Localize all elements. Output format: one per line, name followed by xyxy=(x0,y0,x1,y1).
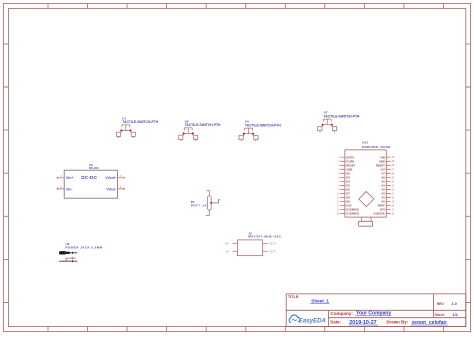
svg-text:GND: GND xyxy=(379,159,385,163)
svg-text:POWER JACK 5.5MM: POWER JACK 5.5MM xyxy=(66,245,103,249)
svg-text:D5: D5 xyxy=(346,183,350,187)
svg-text:DC-DC: DC-DC xyxy=(89,166,99,170)
svg-text:D1/RX: D1/RX xyxy=(346,159,354,163)
frame row ticks left/right xyxy=(4,44,471,303)
svg-text:VOut-: VOut- xyxy=(106,187,117,191)
tactile switch U4 xyxy=(239,120,281,142)
tactile switch U1 xyxy=(116,116,158,138)
svg-text:Date:: Date: xyxy=(330,320,340,325)
svg-text:Sheet:: Sheet: xyxy=(435,313,445,317)
svg-text:3V3: 3V3 xyxy=(380,208,385,212)
svg-text:TACTILE-SWITCH-PTH: TACTILE-SWITCH-PTH xyxy=(185,123,221,127)
svg-text:A7: A7 xyxy=(381,171,385,175)
buck module J2 MP2307-MINI-360 xyxy=(225,231,281,255)
svg-text:Sheet_1: Sheet_1 xyxy=(311,298,329,303)
svg-text:D6: D6 xyxy=(346,187,350,191)
svg-text:VIn+: VIn+ xyxy=(66,176,74,180)
svg-text:1/1: 1/1 xyxy=(453,312,459,317)
svg-text:D10: D10 xyxy=(346,204,351,208)
svg-text:REV:: REV: xyxy=(437,302,444,306)
svg-text:Company:: Company: xyxy=(330,311,353,316)
svg-text:AREF: AREF xyxy=(377,204,385,208)
svg-text:A4: A4 xyxy=(381,183,385,187)
nano centre diamond xyxy=(359,192,374,207)
power jack U3 xyxy=(59,242,103,262)
svg-text:+5V: +5V xyxy=(380,167,385,171)
tactile switch U7 xyxy=(318,111,360,133)
svg-text:EasyEDA: EasyEDA xyxy=(299,317,326,324)
svg-text:TACTILE-SWITCH-PTH: TACTILE-SWITCH-PTH xyxy=(122,120,158,124)
svg-text:OUT-: OUT- xyxy=(269,249,276,253)
svg-text:UA1: UA1 xyxy=(362,141,368,145)
svg-text:IN+: IN+ xyxy=(225,241,230,245)
svg-text:TITLE:: TITLE: xyxy=(288,295,299,299)
svg-text:D13/SCK: D13/SCK xyxy=(373,212,384,216)
svg-text:D4: D4 xyxy=(346,179,350,183)
svg-text:VIN: VIN xyxy=(380,155,385,159)
svg-text:TACTILE-SWITCH-PTH: TACTILE-SWITCH-PTH xyxy=(324,115,360,119)
nano pins xyxy=(340,157,391,213)
svg-text:RESET: RESET xyxy=(346,163,355,167)
svg-text:TACTILE-SWITCH-PTH: TACTILE-SWITCH-PTH xyxy=(245,124,281,128)
svg-text:D0/TX: D0/TX xyxy=(346,155,354,159)
nano usb tab xyxy=(359,221,373,226)
tactile switch U6 xyxy=(179,119,221,141)
svg-text:OUT+: OUT+ xyxy=(269,241,277,245)
svg-text:D7: D7 xyxy=(346,191,350,195)
svg-text:A5: A5 xyxy=(381,179,385,183)
svg-text:VIn-: VIn- xyxy=(66,187,74,191)
svg-text:VOut+: VOut+ xyxy=(105,176,116,180)
svg-text:D9: D9 xyxy=(346,200,350,204)
svg-text:D11/MOSI: D11/MOSI xyxy=(346,208,359,212)
svg-text:1.0: 1.0 xyxy=(451,301,456,306)
svg-text:POT?_1A: POT?_1A xyxy=(191,204,207,208)
svg-text:A6: A6 xyxy=(381,175,385,179)
svg-text:D12/MISO: D12/MISO xyxy=(346,212,359,216)
svg-text:A0: A0 xyxy=(381,200,385,204)
svg-text:A1: A1 xyxy=(381,196,385,200)
svg-text:D8: D8 xyxy=(346,196,350,200)
svg-text:ARDUINO_NANO: ARDUINO_NANO xyxy=(362,145,391,149)
svg-text:D2: D2 xyxy=(346,171,350,175)
DC-DC module U5 xyxy=(57,163,126,198)
svg-text:A3: A3 xyxy=(381,187,385,191)
potentiometer P1 xyxy=(191,190,220,215)
svg-text:D3: D3 xyxy=(346,175,350,179)
EasyEDA logo xyxy=(289,315,300,323)
title block xyxy=(286,294,466,327)
svg-text:Drawn By:: Drawn By: xyxy=(386,320,408,325)
svg-text:GND: GND xyxy=(346,167,352,171)
svg-text:RESET: RESET xyxy=(376,163,385,167)
Arduino Nano UA1 xyxy=(337,141,395,227)
svg-text:MP2307-MINI-360: MP2307-MINI-360 xyxy=(248,235,281,239)
svg-text:DC-DC: DC-DC xyxy=(81,175,97,181)
svg-text:A2: A2 xyxy=(381,191,385,195)
svg-text:IN-: IN- xyxy=(226,249,230,253)
